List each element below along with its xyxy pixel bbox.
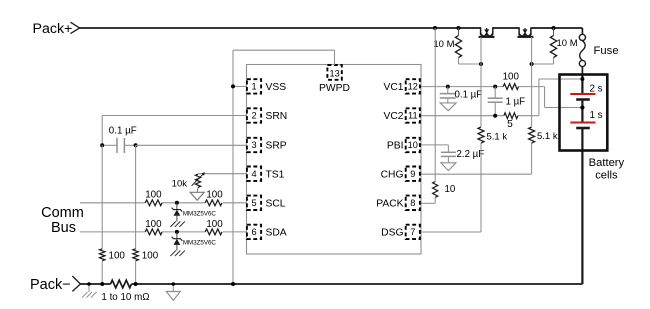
svg-text:100: 100 xyxy=(206,219,223,230)
svg-text:6: 6 xyxy=(251,227,256,237)
resistor 5.1k (right) xyxy=(529,127,535,143)
ground (system, below rail) xyxy=(172,284,174,292)
wire Pack- rail xyxy=(80,283,110,285)
svg-text:0.1 µF: 0.1 µF xyxy=(109,125,137,136)
svg-text:8: 8 xyxy=(410,198,415,208)
wire VC1 xyxy=(421,86,503,88)
transistor Q2 (DSG FET) xyxy=(518,27,520,34)
wire Pack+ rail xyxy=(80,27,481,29)
svg-text:SDA: SDA xyxy=(266,228,287,239)
ground (0.1uF) xyxy=(440,103,456,111)
resistor 5 (VC2) xyxy=(504,113,518,119)
pin 2 SRN xyxy=(247,108,261,122)
battery box xyxy=(560,75,608,151)
zener D1 MM3Z5V6C xyxy=(176,203,178,209)
resistor 100 (SDA left) xyxy=(145,229,162,235)
svg-text:SCL: SCL xyxy=(266,198,286,209)
svg-text:MM3Z5V6C: MM3Z5V6C xyxy=(183,210,217,217)
resistor 10 (PACK) xyxy=(433,182,438,198)
svg-text:cells: cells xyxy=(595,170,618,182)
pin 4 TS1 xyxy=(247,167,261,181)
zener D2 MM3Z5V6C xyxy=(176,232,178,238)
svg-text:TS1: TS1 xyxy=(266,169,285,180)
svg-text:Bus: Bus xyxy=(51,220,76,236)
svg-text:DSG: DSG xyxy=(381,228,403,239)
wire TS1 xyxy=(198,173,247,175)
svg-text:1 to 10 mΩ: 1 to 10 mΩ xyxy=(101,292,149,303)
resistor 5.1k (left) xyxy=(478,127,484,143)
svg-text:10 M: 10 M xyxy=(433,39,454,50)
ground (2.2uF) xyxy=(441,163,456,171)
svg-text:Pack−: Pack− xyxy=(30,277,71,293)
svg-text:SRN: SRN xyxy=(266,111,288,122)
pin 3 SRP xyxy=(247,138,261,152)
wire PWPD to VSS and Pack- xyxy=(334,50,336,65)
resistor 100 (VC1) xyxy=(503,84,518,90)
thermistor 10k xyxy=(195,174,200,187)
wire SCL xyxy=(80,202,145,204)
resistor 10M (left, gate of Q1) xyxy=(458,28,460,36)
pin 10 PBI xyxy=(406,138,420,152)
ground (chassis at Pack-) xyxy=(88,284,90,292)
resistor 10M (right, gate of Q2) xyxy=(553,28,555,36)
wire CHG xyxy=(421,173,532,175)
svg-text:5: 5 xyxy=(507,119,513,130)
capacitor 1uF xyxy=(494,87,496,99)
svg-text:Pack+: Pack+ xyxy=(33,21,73,37)
svg-text:0.1 µF: 0.1 µF xyxy=(455,90,483,101)
resistor 100 (SCL right) xyxy=(205,200,222,206)
svg-text:1 µF: 1 µF xyxy=(506,96,526,107)
pin 7 DSG xyxy=(406,225,420,239)
wire SDA xyxy=(80,231,145,233)
pin 5 SCL xyxy=(247,196,261,210)
pin 1 VSS xyxy=(247,79,261,93)
resistor 100 (left sense) xyxy=(100,249,105,261)
svg-text:Fuse: Fuse xyxy=(594,45,619,57)
svg-text:Comm: Comm xyxy=(41,205,84,221)
svg-text:VC2: VC2 xyxy=(383,111,403,122)
svg-text:PWPD: PWPD xyxy=(319,83,350,94)
capacitor 0.1uF sense filter xyxy=(102,144,117,146)
svg-text:VSS: VSS xyxy=(266,82,287,93)
svg-text:10 M: 10 M xyxy=(557,38,578,49)
svg-text:100: 100 xyxy=(145,190,162,201)
pin 6 SDA xyxy=(247,225,261,239)
wire VC2 xyxy=(421,115,504,117)
wire VC1 net to cell midpoint xyxy=(519,86,545,88)
svg-text:2: 2 xyxy=(251,111,256,121)
svg-text:100: 100 xyxy=(145,219,162,230)
svg-text:11: 11 xyxy=(408,111,418,121)
wire VC2 net to battery top xyxy=(518,115,539,117)
svg-text:SRP: SRP xyxy=(266,141,287,152)
svg-text:100: 100 xyxy=(142,250,159,261)
pin 11 VC2 xyxy=(406,108,420,122)
op-amp U1 battery protection IC outline xyxy=(247,65,422,255)
pin 9 CHG xyxy=(406,167,420,181)
svg-text:100: 100 xyxy=(503,71,520,82)
svg-text:PBI: PBI xyxy=(387,141,404,152)
svg-text:13: 13 xyxy=(329,68,339,78)
svg-text:3: 3 xyxy=(251,140,256,150)
wire SRP xyxy=(136,144,247,146)
resistor shunt 1 to 10 mOhm xyxy=(111,280,132,288)
svg-text:MM3Z5V6C: MM3Z5V6C xyxy=(183,239,217,246)
svg-text:10: 10 xyxy=(445,184,456,195)
pin 13 PWPD xyxy=(327,65,341,80)
wire PBI xyxy=(421,144,448,146)
wire DSG xyxy=(421,231,481,233)
capacitor 2.2uF (PBI) xyxy=(441,151,456,153)
svg-text:CHG: CHG xyxy=(381,169,404,180)
svg-text:12: 12 xyxy=(408,82,418,92)
resistor 100 (SDA right) xyxy=(205,229,222,235)
svg-text:5.1 k: 5.1 k xyxy=(487,132,508,143)
fuse F1 xyxy=(579,34,585,40)
svg-text:VC1: VC1 xyxy=(383,82,403,93)
wire VSS xyxy=(233,85,247,87)
svg-text:100: 100 xyxy=(109,250,126,261)
svg-text:1: 1 xyxy=(251,82,256,92)
wire PACK xyxy=(421,202,435,204)
battery cells B1 B2 xyxy=(581,75,583,95)
svg-text:PACK: PACK xyxy=(376,198,403,209)
svg-text:100: 100 xyxy=(206,190,223,201)
svg-text:Battery: Battery xyxy=(589,157,625,169)
pin 8 PACK xyxy=(406,196,420,210)
wire sense taps down xyxy=(101,145,103,249)
svg-text:4: 4 xyxy=(251,169,256,179)
svg-text:1 s: 1 s xyxy=(590,110,603,121)
wire CHG gate line xyxy=(531,143,533,174)
svg-text:10k: 10k xyxy=(172,179,188,190)
wire DSG gate line xyxy=(480,143,482,232)
svg-text:7: 7 xyxy=(410,227,415,237)
svg-text:9: 9 xyxy=(410,169,415,179)
resistor 100 (right sense) xyxy=(133,249,138,261)
capacitor 0.1uF (VC1) xyxy=(447,87,449,94)
ground (TS1) xyxy=(196,188,199,193)
svg-text:10: 10 xyxy=(408,140,418,150)
resistor 100 (SCL left) xyxy=(145,200,162,206)
svg-text:5: 5 xyxy=(251,198,256,208)
svg-text:2.2 µF: 2.2 µF xyxy=(457,149,485,160)
pin 12 VC1 xyxy=(406,79,420,93)
svg-text:5.1 k: 5.1 k xyxy=(537,131,558,142)
transistor Q1 (CHG FET) xyxy=(480,27,482,34)
svg-text:2 s: 2 s xyxy=(590,84,603,95)
wire SRN xyxy=(102,115,246,117)
